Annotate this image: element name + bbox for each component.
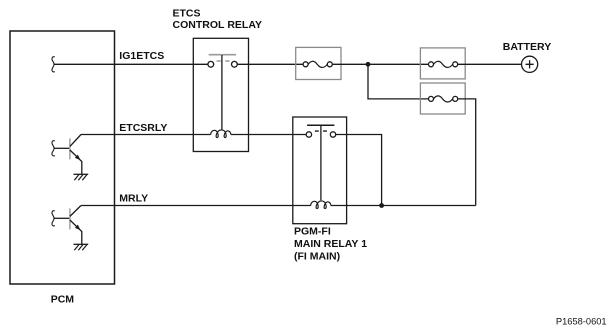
- wire fuse 2 to battery: [458, 63, 522, 65]
- transistor Q1 base wire: [54, 147, 69, 149]
- svg-text:MRLY: MRLY: [119, 193, 148, 205]
- transistor Q2 collector: [70, 206, 81, 217]
- ground G1: [74, 173, 89, 175]
- PGM-FI relay plunger wire: [320, 126, 322, 201]
- transistor Q2 base squiggle: [52, 211, 55, 226]
- wire PGM-FI switch to MRLY junction: [336, 135, 382, 206]
- svg-text:PGM-FI: PGM-FI: [294, 226, 331, 238]
- wire ETCSRLY from Q1 to PGM-FI relay: [81, 134, 306, 136]
- junction node B: [379, 203, 384, 208]
- svg-text:ETCSRLY: ETCSRLY: [119, 122, 167, 134]
- transistor Q1 base bar (gray): [69, 138, 71, 159]
- wire junction down to fuse 3: [368, 64, 429, 99]
- svg-text:(FI MAIN): (FI MAIN): [294, 251, 340, 263]
- wire fuse 1 to junction to fuse 2: [332, 63, 428, 65]
- svg-text:BATTERY: BATTERY: [503, 41, 551, 53]
- svg-text:PCM: PCM: [51, 294, 75, 306]
- fuse box 3 (gray): [420, 83, 465, 114]
- PGM-FI relay switch contact left: [306, 132, 311, 137]
- svg-text:IG1ETCS: IG1ETCS: [119, 50, 164, 62]
- svg-text:MAIN RELAY 1: MAIN RELAY 1: [294, 238, 367, 250]
- PGM-FI relay contact bar: [307, 124, 334, 126]
- ground G2: [74, 243, 89, 245]
- PGM-FI relay dashed armature: [315, 130, 327, 132]
- fuse F1 element: [308, 61, 327, 67]
- wire IG1ETCS from PCM to relay switch: [54, 63, 208, 65]
- fuse box 1 (gray): [296, 47, 341, 79]
- fuse F2 element: [434, 61, 453, 67]
- wire fuse 3 right down to MRLY line: [458, 99, 476, 206]
- relay box PGM-FI main relay 1: [293, 117, 347, 224]
- transistor Q1 collector: [70, 135, 81, 147]
- transistor Q2 base wire: [54, 217, 69, 219]
- fuse F2 terminals: [429, 62, 434, 67]
- PCM box: [10, 31, 115, 284]
- transistor Q1 emitter with arrow: [70, 150, 82, 174]
- transistor Q1 base squiggle: [52, 141, 55, 156]
- ETCS relay switch contact right: [232, 61, 238, 67]
- battery positive terminal: [522, 56, 538, 72]
- relay coil ETCS (on ETCSRLY wire): [211, 130, 231, 138]
- transistor Q2 base bar (gray): [69, 208, 71, 229]
- svg-text:ETCS: ETCS: [173, 7, 201, 19]
- PGM-FI relay switch contact right: [330, 132, 335, 137]
- transistor Q2 emitter with arrow: [70, 220, 82, 244]
- junction node A: [366, 62, 371, 67]
- node IG1ETCS: break squiggle: [52, 57, 55, 72]
- ETCS relay plunger wire: [221, 55, 223, 130]
- relay coil PGM-FI (on MRLY wire): [311, 201, 331, 209]
- wire relay to fuse 1: [237, 63, 303, 65]
- fuse box 2 (gray): [420, 48, 465, 79]
- fuse F3 element: [434, 96, 453, 102]
- ETCS relay switch contact left: [208, 61, 214, 67]
- fuse F3 terminals: [429, 96, 434, 101]
- ETCS relay contact bar (gray): [209, 54, 236, 56]
- relay box ETCS control relay: [193, 38, 248, 151]
- ETCS relay dashed armature (gray): [217, 60, 230, 62]
- svg-text:P1658-0601: P1658-0601: [556, 317, 607, 327]
- svg-text:CONTROL RELAY: CONTROL RELAY: [173, 19, 262, 31]
- wire MRLY from Q2 to right riser: [81, 205, 476, 207]
- fuse F1 terminals: [303, 62, 308, 67]
